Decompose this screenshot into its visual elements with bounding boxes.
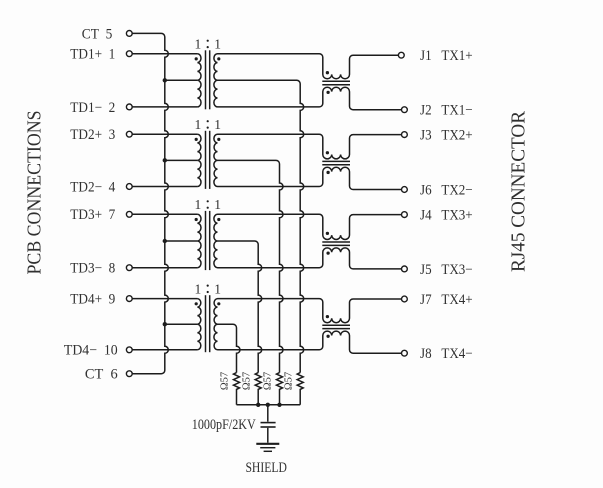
svg-text:1: 1 <box>214 197 221 212</box>
svg-text:TD3+ 7: TD3+ 7 <box>70 207 115 223</box>
svg-text:1: 1 <box>195 117 202 132</box>
svg-text:TD4− 10: TD4− 10 <box>64 343 118 359</box>
svg-text:J8 TX4−: J8 TX4− <box>420 346 473 362</box>
svg-text:1: 1 <box>195 37 202 52</box>
svg-text:J4 TX3+: J4 TX3+ <box>420 208 473 224</box>
svg-text:J5 TX3−: J5 TX3− <box>420 262 473 278</box>
svg-text:TD4+ 9: TD4+ 9 <box>70 292 115 308</box>
svg-text:J3 TX2+: J3 TX2+ <box>420 128 473 144</box>
svg-text:1: 1 <box>195 281 202 296</box>
svg-text:J6 TX2−: J6 TX2− <box>420 182 473 198</box>
svg-text:TD2+ 3: TD2+ 3 <box>70 127 115 143</box>
svg-text:J1 TX1+: J1 TX1+ <box>420 48 473 64</box>
svg-text:RJ45 CONNECTOR: RJ45 CONNECTOR <box>508 110 530 272</box>
svg-text:1000pF/2KV: 1000pF/2KV <box>192 417 256 433</box>
svg-text:TD1+ 1: TD1+ 1 <box>70 47 115 63</box>
svg-text:Ω57: Ω57 <box>241 372 252 390</box>
svg-text:TD3− 8: TD3− 8 <box>70 261 115 277</box>
svg-text:J7 TX4+: J7 TX4+ <box>420 292 473 308</box>
svg-text:1: 1 <box>214 281 221 296</box>
svg-text:Ω57: Ω57 <box>220 372 231 390</box>
svg-text:CT 6: CT 6 <box>85 367 118 383</box>
svg-text:TD2− 4: TD2− 4 <box>70 179 115 195</box>
svg-text:PCB CONNECTIONS: PCB CONNECTIONS <box>24 111 46 275</box>
svg-text:J2 TX1−: J2 TX1− <box>420 103 473 119</box>
svg-text:TD1− 2: TD1− 2 <box>70 100 115 116</box>
svg-text:Ω57: Ω57 <box>263 372 274 390</box>
svg-text:SHIELD: SHIELD <box>245 460 287 476</box>
svg-text:1: 1 <box>214 117 221 132</box>
svg-text:1: 1 <box>195 197 202 212</box>
svg-text:1: 1 <box>214 37 221 52</box>
svg-text:CT 5: CT 5 <box>82 26 113 42</box>
svg-text:Ω57: Ω57 <box>283 372 294 390</box>
